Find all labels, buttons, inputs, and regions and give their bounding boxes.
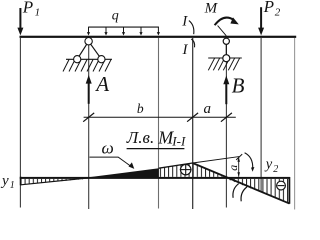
omega leader arrow: [90, 157, 131, 166]
curved mark 2 on negative area: [241, 187, 247, 201]
support B link: [225, 41, 227, 58]
q arrow 4: [139, 27, 142, 35]
q arrow 5: [157, 27, 160, 35]
beam: [20, 36, 297, 38]
svg-text:B: B: [232, 73, 245, 97]
support A pin triangle legs: [77, 41, 88, 59]
svg-text:M: M: [204, 1, 219, 17]
section cut curve below beam: [191, 39, 194, 47]
svg-text:y: y: [0, 173, 9, 189]
ordinate a dimension line: [238, 157, 240, 177]
dimension line: [84, 116, 236, 118]
support B ground line: [208, 57, 242, 59]
influence line rising branch line: [159, 163, 193, 168]
moment M arc arrow: [215, 18, 234, 26]
force P1 arrow: [17, 8, 23, 35]
grid line P2 x=261.1: [260, 38, 262, 192]
minus sign circle: [277, 181, 286, 190]
grid line support B x=226.4: [225, 38, 227, 208]
reaction arrow B: [223, 76, 229, 105]
svg-text:1: 1: [35, 7, 41, 19]
support A ground line: [66, 58, 112, 60]
svg-text:I: I: [181, 14, 188, 30]
svg-text:P: P: [22, 0, 33, 16]
grid line section x=192.7: [192, 38, 194, 209]
reaction arrow A: [86, 75, 92, 104]
dimension tick at section: [187, 113, 198, 122]
support A right roller circle: [98, 56, 105, 63]
curved arrow to y2 area: [245, 153, 253, 169]
dimension tick at B: [221, 113, 232, 122]
svg-text:Л.в.: Л.в.: [126, 128, 154, 147]
support B ground hatching: [208, 58, 239, 70]
svg-text:q: q: [112, 9, 119, 24]
svg-text:1: 1: [10, 180, 15, 191]
q arrow 3: [122, 27, 125, 35]
influence line baseline: [20, 177, 290, 179]
support A ground hatching: [63, 60, 111, 72]
influence line negative hatch region: [226, 179, 289, 204]
support A left roller circle: [74, 56, 81, 63]
dimension tick at A: [83, 113, 94, 122]
influence line positive hatch region: [159, 163, 227, 177]
distributed load q bracket: [88, 26, 159, 28]
grid line q end x=158.5: [158, 38, 160, 209]
moment leader line to beam: [218, 26, 227, 36]
support B bottom circle: [223, 55, 230, 62]
svg-text:P: P: [263, 0, 274, 16]
influence line left overhang line: [21, 178, 89, 185]
influence line left wedge hatch: [21, 179, 86, 185]
svg-text:A: A: [94, 72, 109, 96]
svg-text:I-I: I-I: [171, 133, 186, 148]
grid line left end x=20.4: [19, 38, 21, 208]
svg-text:a: a: [226, 165, 240, 171]
section cut curve above beam: [189, 21, 194, 35]
construction end tick: [236, 154, 242, 160]
svg-text:2: 2: [275, 7, 281, 19]
curved mark 1 on negative area: [233, 184, 239, 198]
influence line left closure: [20, 177, 22, 186]
support A pin circle: [85, 38, 92, 45]
q arrow 2: [104, 27, 107, 35]
influence line area omega (solid black): [89, 168, 159, 177]
underline of L.v. M I-I: [127, 148, 185, 150]
influence line right closure: [288, 177, 290, 204]
q arrow 1: [87, 27, 90, 35]
svg-text:y: y: [264, 156, 273, 172]
plus sign circle: [181, 164, 191, 174]
grid line right border x=294.6: [294, 38, 296, 210]
svg-text:a: a: [204, 101, 212, 117]
svg-text:2: 2: [273, 164, 278, 175]
force P2 arrow: [258, 7, 264, 35]
influence line descending branch line: [193, 163, 290, 204]
grid line support A x=88.7: [88, 38, 90, 209]
construction line extension: [193, 157, 240, 163]
svg-text:I: I: [182, 42, 189, 58]
support B top circle: [223, 38, 229, 44]
svg-text:ω: ω: [102, 138, 114, 157]
svg-text:b: b: [137, 101, 144, 116]
